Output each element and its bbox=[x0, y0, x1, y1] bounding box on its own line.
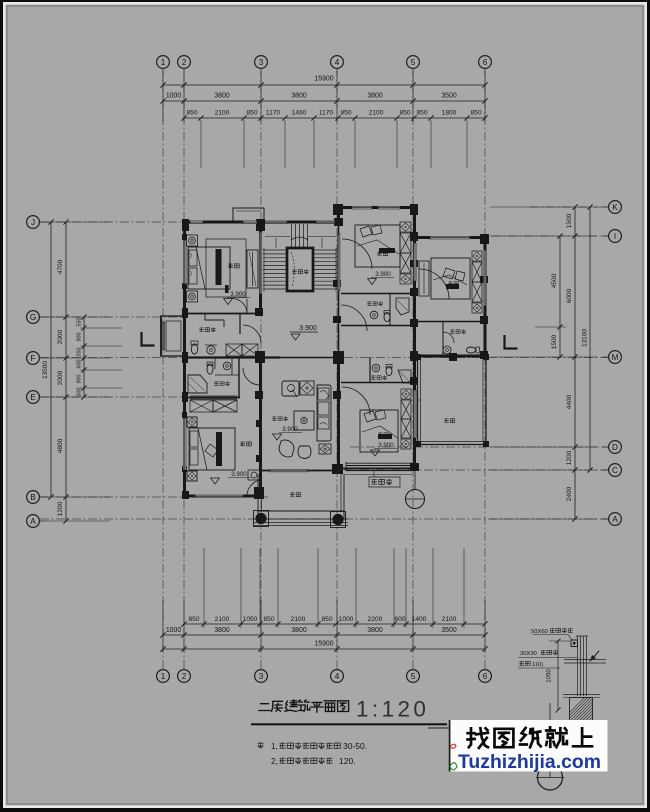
svg-text:1: 1 bbox=[161, 58, 166, 67]
svg-text:2100: 2100 bbox=[369, 110, 384, 117]
hall doors to wings bbox=[243, 325, 261, 343]
terrace mid column top bbox=[449, 353, 457, 361]
axis bubble E left bbox=[27, 391, 40, 404]
window bedroom1 west bbox=[183, 240, 186, 284]
bedroom1 bench bbox=[225, 285, 229, 293]
axis bubble G left bbox=[27, 311, 40, 324]
stair railing verticals bbox=[291, 224, 293, 248]
axis bubble 2 top bbox=[178, 56, 191, 69]
svg-text:15900: 15900 bbox=[314, 76, 333, 83]
toilet bathB bbox=[386, 366, 392, 375]
armchair top bbox=[282, 381, 299, 396]
toilet bath2 bbox=[207, 364, 213, 374]
wall axis M far-right bbox=[417, 355, 486, 358]
axis bubble C right bbox=[609, 464, 622, 477]
axis line 3 bbox=[260, 68, 262, 670]
label 卧室 bedB bbox=[378, 432, 382, 436]
svg-text:13500: 13500 bbox=[42, 361, 49, 379]
bedroom1 wardrobe bbox=[247, 250, 258, 288]
balcony railing south bbox=[258, 510, 344, 512]
title char 二 bbox=[259, 704, 270, 711]
label 露台 bbox=[444, 418, 448, 422]
svg-text:C: C bbox=[612, 466, 618, 475]
axis bubble M right bbox=[609, 351, 622, 364]
svg-text:600: 600 bbox=[394, 616, 405, 623]
watermark logo red stroke bbox=[450, 744, 456, 748]
axis line 2 bbox=[183, 68, 185, 670]
watermark char 上 bbox=[573, 728, 592, 746]
stair shaft door dashed bbox=[291, 252, 294, 287]
svg-text:3800: 3800 bbox=[367, 93, 382, 100]
label spacing 110 bbox=[519, 661, 524, 666]
window band stair east wall bbox=[337, 234, 340, 290]
axis line J bbox=[40, 221, 186, 223]
watermark char 纸 bbox=[520, 728, 541, 747]
svg-text:50X60: 50X60 bbox=[531, 629, 548, 635]
svg-text:3.900: 3.900 bbox=[231, 471, 247, 478]
window bedB east bbox=[413, 390, 416, 438]
bedroom1 door arc bbox=[232, 299, 247, 314]
top dimension lines bbox=[163, 84, 485, 86]
svg-text:1500: 1500 bbox=[551, 334, 558, 349]
balcony corner column SW bbox=[254, 511, 269, 527]
axis bubble 5 bottom bbox=[407, 670, 420, 683]
label 卧室 bedroom1 bbox=[228, 263, 233, 268]
wall axis3 upper (bedroom1 east) bbox=[259, 222, 262, 313]
svg-text:M: M bbox=[612, 353, 619, 362]
window bedC north bbox=[430, 236, 470, 239]
bedB wardrobe X column bbox=[401, 389, 411, 399]
wall bathB partition bbox=[369, 357, 371, 382]
svg-text:3.900: 3.900 bbox=[230, 291, 246, 298]
wall bedroom1/bath1 divider bbox=[184, 313, 261, 315]
bedA quilt bbox=[379, 248, 395, 253]
detail vertical dim 1050 bbox=[557, 641, 559, 710]
bedroom2 bed bbox=[189, 428, 235, 470]
toilet bathA bbox=[384, 312, 390, 321]
left extension lines bbox=[46, 221, 110, 223]
toilet bathC bbox=[466, 347, 475, 353]
防护栏 label box bbox=[369, 477, 400, 487]
railing window (防护栏) right wing south bbox=[346, 465, 412, 466]
svg-text:2100: 2100 bbox=[215, 616, 230, 623]
bedroom2 closet band bbox=[190, 395, 237, 397]
watermark white box bbox=[449, 720, 608, 772]
bedA wardrobe X column bbox=[400, 222, 411, 232]
wall bathC partition bbox=[442, 321, 444, 356]
wall living room south (axis C) bbox=[261, 470, 342, 472]
svg-text:3: 3 bbox=[259, 58, 264, 67]
corner mark left bbox=[142, 332, 155, 346]
svg-text:1800: 1800 bbox=[442, 110, 457, 117]
watermark char 图 bbox=[495, 729, 514, 747]
wall axis F corridor bbox=[184, 356, 280, 358]
axis bubble 3 top bbox=[255, 56, 268, 69]
label 会客厅 bbox=[272, 416, 276, 420]
svg-text:6000: 6000 bbox=[566, 288, 573, 303]
stair treads bbox=[263, 249, 287, 251]
svg-text:D: D bbox=[612, 443, 618, 452]
svg-text:3800: 3800 bbox=[367, 627, 382, 634]
balcony west rail bbox=[257, 474, 259, 519]
label 楼梯间 bbox=[292, 269, 296, 273]
svg-text:850: 850 bbox=[263, 616, 274, 623]
svg-text:850: 850 bbox=[470, 110, 481, 117]
bedA pillow2 bbox=[371, 225, 382, 235]
svg-text:3800: 3800 bbox=[291, 93, 306, 100]
bedC wardrobe X column right bbox=[472, 251, 482, 261]
title char 建 bbox=[285, 700, 297, 711]
axis bubble 1 top bbox=[157, 56, 170, 69]
title char 层 bbox=[272, 701, 283, 711]
svg-text:850: 850 bbox=[186, 110, 197, 117]
svg-text:K: K bbox=[612, 203, 618, 212]
svg-text:1500: 1500 bbox=[566, 213, 573, 228]
axis bubble 4 bottom bbox=[331, 670, 344, 683]
bedroom1 pillows bbox=[189, 250, 197, 266]
svg-text:1050: 1050 bbox=[243, 616, 258, 623]
svg-text:1400: 1400 bbox=[412, 616, 427, 623]
axis bubble A right bbox=[609, 513, 622, 526]
svg-text:4700: 4700 bbox=[57, 259, 64, 274]
bedC door arc bbox=[419, 269, 449, 299]
svg-text:1000: 1000 bbox=[166, 627, 181, 634]
svg-text:3500: 3500 bbox=[441, 93, 456, 100]
wall right-wing bottom (axis C) bbox=[337, 468, 417, 470]
door bathC bbox=[443, 332, 454, 343]
watermark logo green stroke bbox=[450, 763, 457, 770]
svg-text:2200: 2200 bbox=[368, 616, 383, 623]
svg-text:3.900: 3.900 bbox=[299, 325, 317, 332]
露台 terrace outline bbox=[417, 357, 419, 445]
axis line 1 bbox=[162, 68, 164, 670]
svg-text:120.: 120. bbox=[339, 756, 356, 766]
right dimension lines bbox=[574, 207, 576, 519]
svg-text:6: 6 bbox=[483, 58, 488, 67]
label 卫生间 bath1 bbox=[199, 327, 203, 331]
title char 图 bbox=[338, 701, 349, 712]
bedroom2 lamp bbox=[205, 444, 218, 457]
svg-text:850: 850 bbox=[399, 110, 410, 117]
terrace step marks bbox=[417, 399, 421, 401]
svg-text:110): 110) bbox=[532, 662, 543, 668]
label 卧室 bedroom2 bbox=[240, 441, 245, 446]
stair core / shaft box bbox=[287, 248, 313, 291]
wall left-wing west (axis 2) bbox=[183, 222, 186, 497]
svg-text:4500: 4500 bbox=[551, 273, 558, 288]
wall axis3 lower bbox=[259, 356, 262, 497]
window bedA north2 bbox=[378, 206, 400, 209]
svg-text:2100: 2100 bbox=[442, 616, 457, 623]
svg-text:4400: 4400 bbox=[566, 394, 573, 409]
window stair north 1 bbox=[265, 221, 287, 224]
axis line A bbox=[40, 518, 608, 520]
label 卫生间 bath2 bbox=[214, 381, 218, 385]
axis bubble 6 top bbox=[479, 56, 492, 69]
svg-text:500: 500 bbox=[77, 388, 83, 397]
svg-text:850: 850 bbox=[340, 110, 351, 117]
wall bathA partition bbox=[389, 293, 391, 325]
axis bubble 5 top bbox=[407, 56, 420, 69]
wall bedC/bathC divider bbox=[417, 321, 485, 323]
corner mark right bbox=[505, 335, 518, 349]
svg-text:1: 1 bbox=[161, 672, 166, 681]
wall far-right east (axis 6) bbox=[484, 237, 487, 357]
wall left-wing top (axis J) bbox=[184, 221, 261, 224]
axis line G bbox=[40, 316, 186, 318]
axis bubble A left bbox=[27, 515, 40, 528]
bedC cabinet left bbox=[419, 261, 429, 296]
bay window left (axis F area) bbox=[161, 316, 185, 356]
label 卫生间 bathB bbox=[371, 375, 375, 379]
bath1 partition L bbox=[205, 313, 224, 327]
wall bath2/bedroom2 divider (axis E) bbox=[184, 397, 240, 399]
bedA pillow1 bbox=[360, 226, 372, 237]
svg-text:3800: 3800 bbox=[214, 93, 229, 100]
rail cap square bbox=[571, 640, 578, 647]
label 防护栏 bbox=[372, 479, 378, 485]
wall bath1 partition bbox=[239, 313, 241, 334]
svg-text:2: 2 bbox=[182, 672, 187, 681]
label 卫生间 bathC bbox=[450, 329, 454, 333]
right extension lines bbox=[490, 206, 597, 208]
sill line below right wing C wall bbox=[345, 474, 412, 476]
axis bubble K right bbox=[609, 201, 622, 214]
svg-text:30-50.: 30-50. bbox=[343, 741, 367, 751]
window living south bbox=[270, 469, 308, 472]
bedroom2 nightstands bbox=[187, 417, 197, 427]
mid rail with section arrow bbox=[564, 659, 606, 661]
svg-text:2: 2 bbox=[182, 58, 187, 67]
left dimension lines bbox=[50, 222, 52, 497]
svg-text:5: 5 bbox=[411, 58, 416, 67]
title char 筑 bbox=[298, 700, 309, 711]
svg-text:4800: 4800 bbox=[57, 438, 64, 453]
axis line K bbox=[530, 206, 608, 208]
stray line left of watermark bbox=[428, 727, 450, 729]
axis bubble 3 bottom bbox=[255, 670, 268, 683]
wall axis4 mid bbox=[338, 222, 340, 356]
bedA door arc bbox=[342, 239, 372, 269]
svg-text:900: 900 bbox=[77, 375, 83, 384]
watermark char 找 bbox=[468, 728, 488, 748]
svg-text:850: 850 bbox=[188, 616, 199, 623]
wall axis4 living east bbox=[337, 356, 340, 470]
shower bathB bbox=[398, 370, 411, 383]
axis bubble 2 bottom bbox=[178, 670, 191, 683]
window bedA north bbox=[352, 206, 372, 209]
axis line F/M bbox=[40, 357, 608, 359]
bottom dimension lines bbox=[184, 623, 485, 625]
bath2 partitions bbox=[215, 358, 239, 375]
bedroom1 quilt bar bbox=[216, 249, 222, 285]
stair outer thin boundary bbox=[276, 238, 322, 248]
bedB bed bbox=[360, 410, 398, 452]
axis line 5 bbox=[412, 68, 414, 670]
window stair north 2 bbox=[316, 221, 335, 224]
bedroom2 desk chair bbox=[248, 470, 261, 480]
wall axis4 above J bbox=[337, 207, 340, 222]
balcony corner column SE bbox=[331, 512, 346, 528]
detail bubble below watermark bbox=[549, 703, 551, 778]
axis bubble I right bbox=[609, 230, 622, 243]
svg-text:1170: 1170 bbox=[266, 110, 281, 117]
svg-text:I: I bbox=[614, 232, 616, 241]
closet X b bbox=[190, 400, 213, 412]
svg-text:2400: 2400 bbox=[566, 486, 573, 501]
basin bath1 bbox=[207, 346, 215, 354]
svg-text:2,: 2, bbox=[271, 757, 278, 766]
window bedroom2 south bbox=[195, 495, 243, 498]
svg-text:3500: 3500 bbox=[441, 627, 456, 634]
closet X a bbox=[226, 344, 242, 356]
wall bath interior vertical bbox=[238, 357, 240, 397]
axis bubble F left bbox=[27, 352, 40, 365]
window stair west-north bbox=[243, 221, 257, 225]
axis line E bbox=[40, 396, 188, 398]
bottom extension lines bbox=[162, 600, 164, 652]
svg-text:A: A bbox=[30, 517, 36, 526]
label 卫生间 bathA bbox=[367, 301, 371, 305]
svg-text:550: 550 bbox=[77, 348, 83, 357]
svg-text:5: 5 bbox=[411, 672, 416, 681]
svg-text:2100: 2100 bbox=[215, 110, 230, 117]
window band stair west wall bbox=[259, 232, 262, 294]
axis bubble 1 bottom bbox=[157, 670, 170, 683]
axis bubble D right bbox=[609, 441, 622, 454]
svg-text:4: 4 bbox=[335, 58, 340, 67]
svg-text:30X30: 30X30 bbox=[520, 651, 537, 657]
wall bathB/bedB divider bbox=[341, 382, 413, 384]
axis bubble 6 bottom bbox=[479, 670, 492, 683]
svg-text:3: 3 bbox=[259, 672, 264, 681]
shower bathA bbox=[396, 298, 409, 315]
window left bay bbox=[162, 322, 165, 350]
svg-text:1050: 1050 bbox=[547, 669, 553, 683]
stair up-arrow arc bbox=[291, 237, 308, 240]
bedroom1 area rug outline bbox=[206, 239, 246, 297]
svg-text:Tuzhizhijia.com: Tuzhizhijia.com bbox=[458, 751, 601, 773]
section detail circle right wing bbox=[406, 490, 425, 509]
bedroom1 nightstand top bbox=[187, 235, 198, 246]
svg-text:600: 600 bbox=[77, 360, 83, 369]
bedroom1 nightstand bottom bbox=[187, 291, 198, 302]
svg-text:6: 6 bbox=[483, 672, 488, 681]
bedroom2 quilt bar bbox=[216, 432, 222, 466]
watermark box left border bbox=[449, 720, 451, 772]
stair landing lines bbox=[265, 236, 290, 238]
svg-text:1,: 1, bbox=[271, 742, 278, 751]
title char 平 bbox=[311, 702, 323, 712]
door hall to right wing bbox=[341, 305, 367, 331]
toilet bath1 bbox=[191, 344, 197, 354]
svg-text:3.900: 3.900 bbox=[378, 442, 394, 449]
svg-text:A: A bbox=[612, 515, 618, 524]
svg-text:4: 4 bbox=[335, 672, 340, 681]
title char 面 bbox=[324, 701, 335, 712]
window bedroom2 west bbox=[183, 418, 186, 470]
svg-text:3.900: 3.900 bbox=[282, 426, 298, 433]
svg-text:3.900: 3.900 bbox=[375, 271, 391, 278]
stair bay window protrusion bbox=[233, 208, 264, 222]
basin bath2 bbox=[223, 362, 231, 370]
wall bathA south bbox=[341, 325, 413, 327]
structural columns bbox=[182, 219, 189, 231]
svg-text:15900: 15900 bbox=[314, 641, 333, 648]
side table bottom-right bbox=[319, 444, 331, 454]
railing posts bbox=[577, 636, 579, 696]
svg-text:850: 850 bbox=[246, 110, 257, 117]
window bedroom1 north bbox=[190, 221, 203, 225]
svg-text:13100: 13100 bbox=[582, 329, 589, 347]
svg-text:1200: 1200 bbox=[57, 501, 64, 516]
axis line D bbox=[350, 446, 608, 448]
shower bath2 bbox=[188, 375, 207, 393]
axis line 6 bbox=[484, 68, 486, 670]
fan chairs bottom bbox=[279, 440, 294, 457]
wall axis5 bbox=[413, 207, 416, 470]
axis bubble J left bbox=[27, 216, 40, 229]
bedA bed bbox=[355, 225, 400, 267]
coffee table bbox=[294, 411, 314, 430]
svg-text:3800: 3800 bbox=[214, 627, 229, 634]
svg-text:B: B bbox=[30, 493, 36, 502]
window bedC west doorish bbox=[413, 243, 416, 281]
notes line 1 bbox=[258, 742, 264, 748]
svg-text:550: 550 bbox=[77, 318, 83, 327]
svg-text:3800: 3800 bbox=[291, 627, 306, 634]
svg-text:1000: 1000 bbox=[166, 93, 181, 100]
svg-text:1:120: 1:120 bbox=[356, 697, 429, 722]
wall right-wing top (axis K) bbox=[337, 206, 417, 209]
svg-text:1000: 1000 bbox=[339, 616, 354, 623]
svg-text:F: F bbox=[30, 354, 35, 363]
axis bubble 4 top bbox=[331, 56, 344, 69]
wall left-wing bottom (axis B) bbox=[184, 495, 261, 498]
wall far-right top (axis I) bbox=[417, 236, 486, 239]
sofa right column bbox=[317, 385, 331, 441]
axis line B bbox=[40, 496, 268, 498]
svg-text:2000: 2000 bbox=[57, 329, 64, 344]
svg-text:2000: 2000 bbox=[57, 370, 64, 385]
top extension lines bbox=[162, 70, 164, 122]
svg-text:1460: 1460 bbox=[292, 110, 307, 117]
svg-text:900: 900 bbox=[77, 333, 83, 342]
title underline bbox=[251, 723, 447, 725]
svg-text:G: G bbox=[30, 313, 36, 322]
svg-text:850: 850 bbox=[321, 616, 332, 623]
side table sq bbox=[300, 381, 314, 395]
bedroom1 bed bbox=[188, 247, 230, 289]
window bedC east bbox=[484, 250, 487, 306]
concrete parapet top lines bbox=[563, 694, 600, 696]
svg-text:E: E bbox=[30, 393, 36, 402]
svg-text:2100: 2100 bbox=[291, 616, 306, 623]
axis bubble B left bbox=[27, 491, 40, 504]
axis line I bbox=[492, 235, 608, 237]
svg-text:J: J bbox=[31, 218, 35, 227]
watermark char 就 bbox=[546, 727, 567, 747]
wall stair top (axis J) bbox=[261, 221, 337, 224]
bedroom2 door arc bbox=[247, 480, 261, 496]
axis line C bbox=[312, 469, 608, 471]
bedC bed bbox=[431, 258, 470, 299]
svg-text:1200: 1200 bbox=[566, 450, 573, 465]
axis line 4 bbox=[336, 68, 338, 670]
label 阳台 bbox=[290, 492, 294, 496]
bedB door arc bbox=[342, 387, 370, 415]
concrete parapet hatched block bbox=[570, 698, 593, 723]
